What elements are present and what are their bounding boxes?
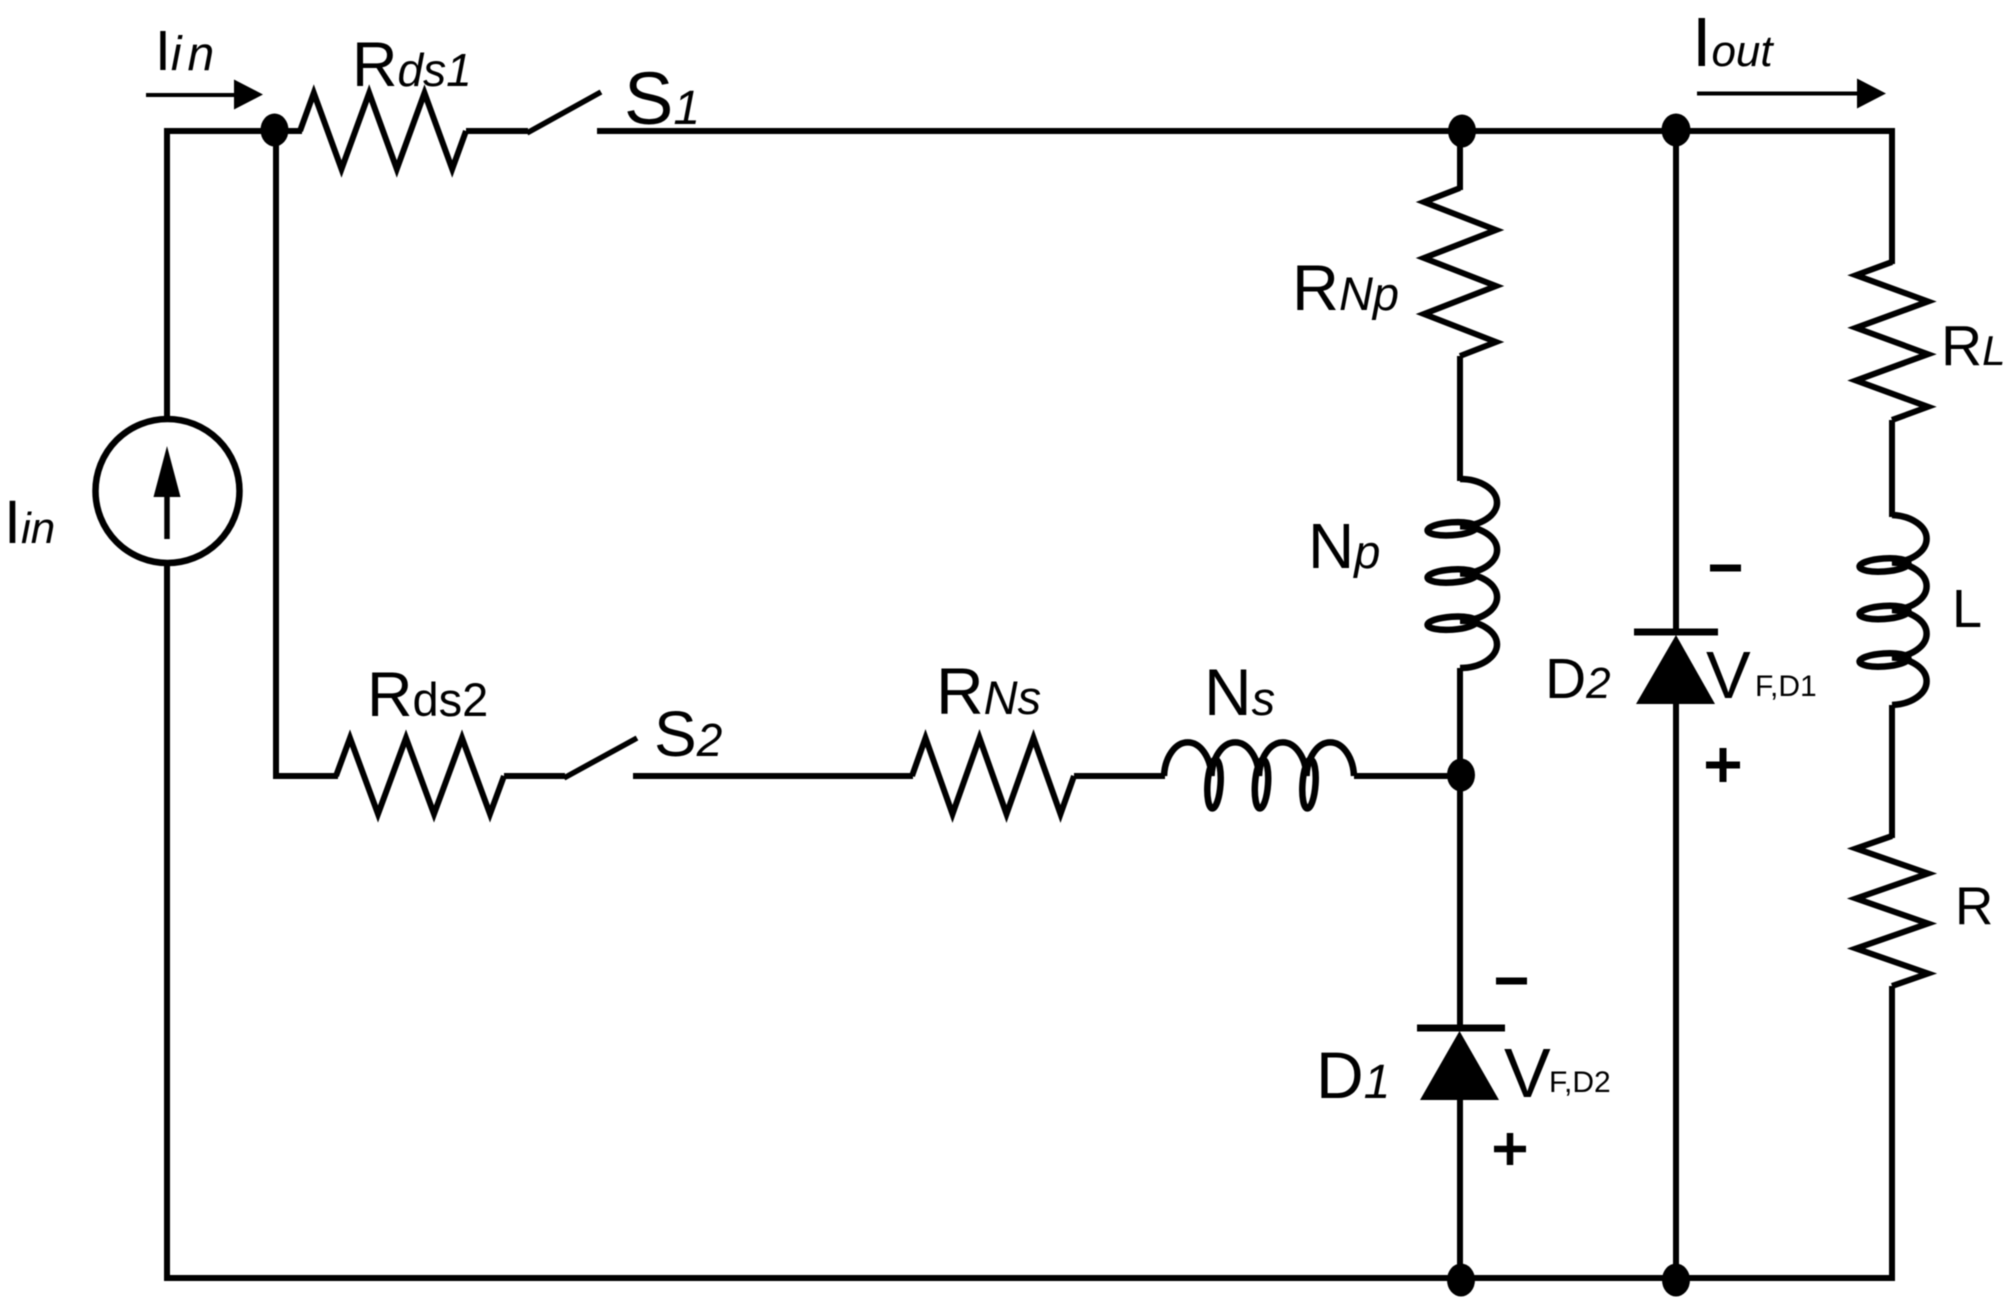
resistor R	[1856, 836, 1928, 986]
switch S1 lever	[527, 92, 601, 133]
node A (input junction)	[261, 114, 289, 147]
svg-text:RNp: RNp	[1292, 251, 1399, 324]
svg-text:RL: RL	[1941, 314, 2005, 378]
wire Rds2 to S2	[504, 773, 565, 779]
svg-text:S1: S1	[624, 57, 700, 140]
wire L to R	[1889, 705, 1895, 838]
svg-text:Iin: Iin	[155, 19, 220, 83]
node top of RNp branch	[1448, 115, 1476, 148]
wire left vertical upper (source top)	[164, 128, 170, 417]
svg-text:Rds1: Rds1	[352, 30, 472, 100]
node top of D2 branch	[1662, 114, 1691, 147]
resistor Rds1	[300, 93, 466, 169]
diode D1 triangle	[1420, 1031, 1499, 1100]
diode D2 cathode bar	[1634, 629, 1718, 636]
svg-text:D1: D1	[1316, 1038, 1390, 1112]
wire RNp to Np	[1457, 356, 1463, 481]
svg-text:S2: S2	[654, 698, 722, 770]
wire D1 to bottom	[1457, 1100, 1463, 1278]
wire S2 to RNs	[633, 773, 913, 779]
svg-text:R: R	[1955, 877, 1993, 936]
svg-text:Ns: Ns	[1204, 655, 1275, 729]
svg-text:Iin: Iin	[4, 488, 55, 556]
svg-text:Np: Np	[1308, 510, 1380, 582]
diode D2 triangle	[1636, 635, 1715, 704]
wire top-right corner to RL	[1889, 128, 1895, 264]
svg-text:V: V	[1706, 638, 1751, 713]
wire Np to middle node	[1457, 668, 1463, 776]
wire Rds1 to S1	[466, 128, 528, 134]
svg-text:F,D1: F,D1	[1755, 670, 1817, 703]
minus sign (D2)	[1710, 565, 1741, 572]
arrow Iout	[1697, 92, 1860, 96]
node bottom of D2	[1662, 1264, 1690, 1297]
inductor Np	[1460, 479, 1497, 668]
plus sign (D2)	[1706, 748, 1740, 782]
wire top node to D2	[1673, 131, 1679, 632]
wire RL to L	[1889, 420, 1895, 517]
wire RNs to Ns	[1074, 773, 1165, 779]
diode D1 cathode bar	[1417, 1025, 1505, 1032]
svg-text:V: V	[1504, 1034, 1551, 1112]
resistor RNp	[1424, 188, 1496, 356]
switch S2 lever	[564, 738, 637, 778]
svg-text:D2: D2	[1545, 647, 1611, 711]
resistor RL	[1856, 262, 1928, 420]
resistor Rds2	[336, 738, 504, 814]
wire middle node to D1	[1457, 776, 1463, 1028]
inductor Ns	[1164, 742, 1354, 776]
svg-text:RNs: RNs	[936, 654, 1041, 728]
wire Rds2 branch vertical drop	[273, 131, 338, 776]
node middle (Ns-Np-D1 junction)	[1447, 759, 1475, 792]
current source arrow	[164, 462, 170, 539]
wire Ns to middle node	[1354, 773, 1460, 779]
wire R to bottom-right corner	[1889, 986, 1895, 1278]
plus sign (D1)	[1494, 1133, 1526, 1165]
current source Iin circle	[96, 419, 240, 563]
wire left vertical lower (source bottom)	[164, 565, 170, 1281]
wire bottom rail	[164, 1275, 1895, 1281]
svg-text:F,D2: F,D2	[1549, 1066, 1611, 1099]
inductor L	[1892, 515, 1927, 705]
node bottom of D1	[1447, 1264, 1475, 1297]
wire node to RNp	[1457, 131, 1463, 190]
wire top main (S1 to right corner)	[597, 128, 1892, 134]
wire D2 to bottom	[1673, 704, 1679, 1278]
resistor RNs	[912, 738, 1074, 814]
wire top-left horizontal segment	[164, 128, 302, 134]
arrow Iin	[146, 93, 238, 97]
svg-text:L: L	[1952, 579, 1982, 639]
svg-text:Iout: Iout	[1692, 3, 1774, 81]
svg-text:Rds2: Rds2	[367, 660, 488, 730]
minus sign (D1)	[1496, 978, 1527, 985]
